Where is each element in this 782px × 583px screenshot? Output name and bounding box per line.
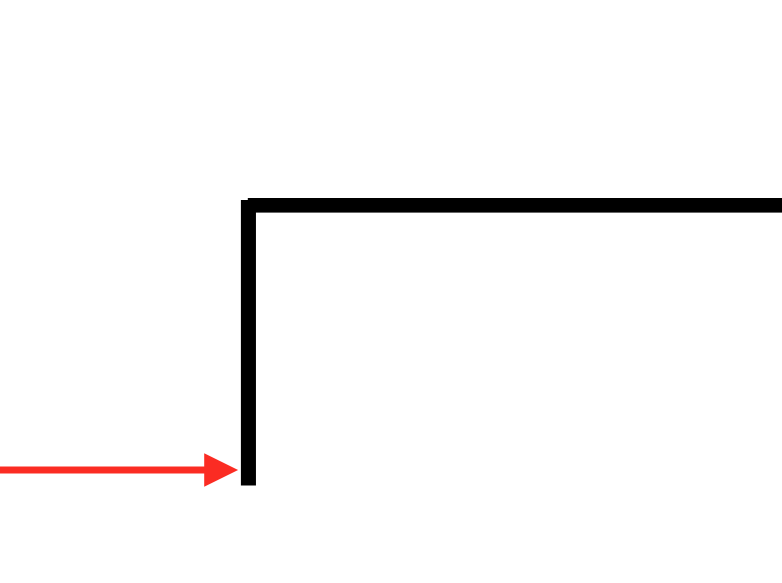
annotation arrow (red pointer to wire end) <box>0 453 238 487</box>
wire vertical segment <box>241 200 256 486</box>
wire horizontal segment <box>248 198 782 213</box>
